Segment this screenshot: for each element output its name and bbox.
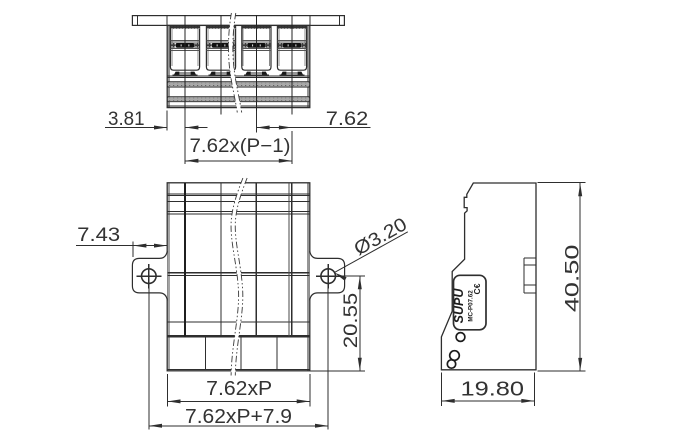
dimension 3.81: [105, 109, 208, 130]
left mounting flange: [132, 251, 167, 300]
dimension 20.55: [310, 276, 365, 371]
svg-text:7.62xP+7.9: 7.62xP+7.9: [185, 406, 292, 428]
svg-text:7.62: 7.62: [326, 109, 369, 130]
top view: main body outline: [167, 25, 310, 107]
top view: hatched band 1: [168, 82, 309, 87]
top view: flange strip: [132, 16, 344, 26]
svg-text:7.62xP: 7.62xP: [206, 378, 272, 400]
svg-text:7.43: 7.43: [77, 225, 120, 246]
terminal clamp T1 (top view): [170, 26, 199, 75]
terminal clamp T3 (top view): [242, 26, 271, 75]
front view: pole division lines: [185, 183, 292, 336]
dimension diameter 3.20 leader: [334, 214, 410, 281]
dimension 40.50: [538, 183, 586, 372]
side view: product label: [452, 275, 486, 330]
centerline pole 4 (top view): [291, 15, 293, 115]
centerline pole 2 (top view): [220, 15, 222, 115]
left flange hole: [137, 264, 162, 288]
front view: body outline: [167, 183, 310, 371]
centerline pole 3 (top view): [255, 15, 257, 115]
right mounting flange: [310, 251, 345, 300]
dimension 7.62xP: [167, 374, 310, 407]
break line front view: [231, 178, 247, 376]
centerline pole 1 (top view): [184, 15, 186, 115]
side view: DIN rail slot: [524, 258, 536, 293]
front view: horizontal face lines: [167, 194, 310, 336]
side view: profile outline: [441, 183, 536, 370]
dimension 19.80: [442, 373, 535, 407]
top view: lower body line: [167, 76, 310, 77]
front view: lower cell dividers: [205, 336, 276, 369]
top view: hatched band 2: [168, 97, 309, 102]
right flange hole: [316, 264, 341, 288]
dimension 7.62xP+7.9: [149, 406, 328, 428]
svg-text:19.80: 19.80: [461, 378, 525, 400]
svg-text:SUPU: SUPU: [452, 288, 466, 324]
svg-text:40.50: 40.50: [562, 245, 583, 313]
dimension 7.43: [76, 225, 167, 257]
extension lines from flange hole centers: [149, 288, 328, 429]
terminal clamp T2 (top view): [206, 26, 235, 75]
dimension 7.62: [256, 109, 370, 133]
dimension 7.62x(P-1): [185, 110, 292, 164]
svg-text:C€: C€: [472, 283, 482, 294]
side view: wire entry circles: [447, 333, 465, 369]
break line top view: [228, 13, 241, 113]
terminal clamp T4 (top view): [277, 26, 306, 75]
svg-text:20.55: 20.55: [340, 293, 362, 349]
svg-text:7.62x(P−1): 7.62x(P−1): [190, 136, 291, 157]
